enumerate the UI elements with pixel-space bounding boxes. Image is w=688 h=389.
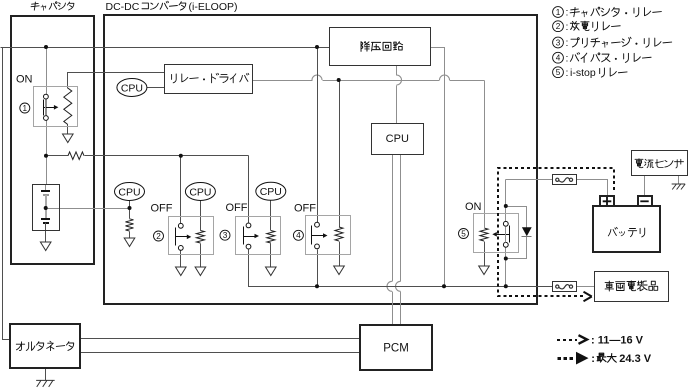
svg-text:2: 2	[556, 22, 561, 31]
svg-text:CPU: CPU	[121, 82, 143, 94]
svg-text:OFF: OFF	[151, 203, 173, 215]
svg-text:5: 5	[461, 229, 466, 238]
svg-text:2: 2	[156, 232, 161, 241]
svg-text:(i-ELOOP): (i-ELOOP)	[189, 1, 238, 13]
svg-text:1: 1	[556, 8, 561, 17]
svg-text:3: 3	[556, 38, 561, 47]
svg-text:CPU: CPU	[189, 186, 211, 198]
svg-text:DC-DC: DC-DC	[106, 1, 140, 13]
svg-text:24.3 V: 24.3 V	[619, 353, 651, 365]
svg-text:PCM: PCM	[383, 343, 409, 355]
svg-text:4: 4	[296, 231, 301, 240]
svg-text:1: 1	[23, 104, 28, 113]
svg-text::: :	[566, 21, 569, 33]
svg-text:4: 4	[556, 54, 561, 63]
svg-text:OFF: OFF	[226, 202, 248, 214]
svg-text:: 11—16 V: : 11—16 V	[591, 334, 644, 346]
svg-text:OFF: OFF	[294, 203, 316, 215]
svg-text:3: 3	[223, 231, 228, 240]
svg-text:i-stop: i-stop	[570, 67, 596, 79]
svg-text:CPU: CPU	[118, 186, 140, 198]
svg-text:ON: ON	[465, 201, 482, 213]
svg-text:CPU: CPU	[386, 133, 409, 145]
svg-text::: :	[566, 52, 569, 64]
svg-text:CPU: CPU	[260, 186, 282, 198]
svg-text::: :	[566, 67, 569, 79]
svg-text:5: 5	[556, 68, 561, 77]
svg-text:ON: ON	[16, 74, 33, 86]
svg-text::: :	[566, 37, 569, 49]
svg-text::: :	[566, 7, 569, 19]
svg-text::: :	[591, 353, 595, 365]
